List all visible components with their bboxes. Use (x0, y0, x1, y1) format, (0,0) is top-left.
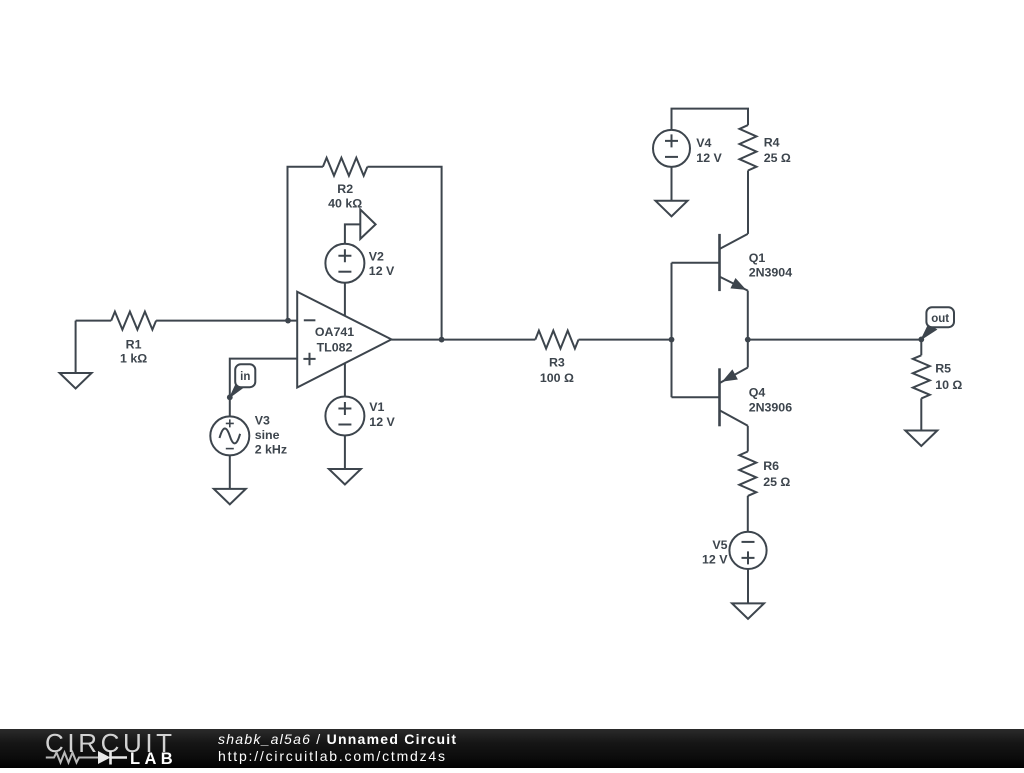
transistor Q1 2N3904 (718, 234, 721, 291)
node: base rail junction (669, 337, 675, 343)
wire (391, 339, 535, 341)
node out flag (921, 325, 936, 340)
ground (905, 431, 937, 447)
svg-text:10 Ω: 10 Ω (935, 378, 962, 392)
wire (344, 283, 346, 316)
wire (229, 397, 231, 416)
wire (Q4 collector) (747, 426, 749, 452)
svg-text:12 V: 12 V (369, 264, 395, 278)
voltage source V1 (325, 397, 364, 436)
node: output junction (745, 337, 751, 343)
resistor R5 (913, 355, 930, 398)
svg-text:R1: R1 (126, 338, 142, 352)
wire (579, 339, 672, 341)
svg-text:R3: R3 (549, 356, 565, 370)
svg-text:25 Ω: 25 Ω (763, 475, 790, 489)
wire (920, 339, 922, 355)
svg-text:2N3904: 2N3904 (749, 265, 793, 279)
voltage source V5 (reversed) (729, 532, 766, 569)
wire (76, 320, 112, 322)
voltage source V2 (325, 244, 364, 283)
voltage source V4 (653, 130, 690, 167)
wire (Q4 base) (672, 396, 720, 398)
svg-text:LAB: LAB (130, 750, 177, 768)
svg-text:1 kΩ: 1 kΩ (120, 352, 147, 366)
wire (Q1 emitter to out) (747, 291, 749, 340)
node: inverting input junction (285, 318, 291, 324)
wire (747, 171, 749, 234)
ground (656, 201, 688, 217)
wire (+ input) (230, 359, 297, 398)
svg-text:100 Ω: 100 Ω (540, 371, 574, 385)
ground (732, 603, 764, 619)
svg-text:sine: sine (255, 428, 280, 442)
resistor R1 (111, 312, 156, 330)
node: V3 top junction (227, 394, 233, 400)
power flag (360, 210, 375, 239)
node: out junction (918, 337, 924, 343)
voltage source V3 (sine) (210, 416, 249, 455)
wire (344, 435, 346, 469)
ground (329, 469, 361, 485)
wire (base rail) (671, 263, 673, 398)
wire (920, 398, 922, 430)
node in flag (230, 382, 245, 398)
svg-text:25 Ω: 25 Ω (764, 151, 791, 165)
wire (feedback right riser) (367, 167, 441, 340)
svg-text:V3: V3 (255, 414, 270, 428)
wire (345, 224, 360, 243)
wire (229, 455, 231, 489)
wire (Q1 base) (672, 262, 720, 264)
svg-text:R2: R2 (337, 182, 353, 196)
wire (747, 496, 749, 532)
node: output junction with feedback (439, 337, 445, 343)
op-amp U1 OA741/TL082 (297, 292, 391, 388)
svg-text:40 kΩ: 40 kΩ (328, 197, 362, 211)
svg-text:R4: R4 (764, 135, 780, 149)
svg-text:Q4: Q4 (749, 386, 766, 400)
resistor R3 (535, 331, 578, 349)
wire (to out) (748, 339, 922, 341)
wire (747, 569, 749, 603)
wire (feedback left riser) (288, 167, 323, 321)
transistor Q4 2N3906 (718, 368, 721, 426)
svg-text:R6: R6 (763, 459, 779, 473)
svg-text:V2: V2 (369, 250, 384, 264)
svg-text:TL082: TL082 (317, 340, 353, 354)
svg-text:V1: V1 (369, 400, 384, 414)
svg-text:12 V: 12 V (369, 415, 395, 429)
svg-text:R5: R5 (935, 362, 951, 376)
svg-text:V4: V4 (696, 136, 711, 150)
resistor R6 (739, 452, 756, 496)
svg-text:12 V: 12 V (702, 553, 728, 567)
resistor R4 (740, 125, 757, 170)
ground (75, 321, 77, 373)
resistor R2 (323, 158, 368, 176)
svg-text:OA741: OA741 (315, 325, 354, 339)
svg-text:V5: V5 (712, 538, 727, 552)
svg-text:Q1: Q1 (749, 251, 766, 265)
svg-text:2 kHz: 2 kHz (255, 443, 287, 457)
svg-text:out: out (931, 313, 949, 325)
svg-text:in: in (240, 371, 250, 383)
wire (out to Q4 emitter) (747, 340, 749, 368)
svg-text:2N3906: 2N3906 (749, 401, 793, 415)
svg-text:12 V: 12 V (696, 151, 722, 165)
wire (672, 109, 749, 131)
wire (671, 167, 673, 201)
wire (156, 320, 297, 322)
ground (214, 489, 246, 505)
wire (344, 363, 346, 397)
